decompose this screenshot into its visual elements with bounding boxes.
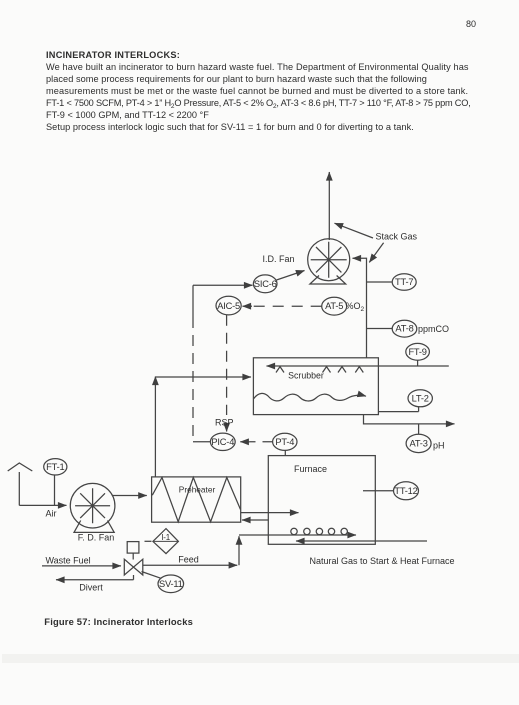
instrument AT-3 xyxy=(406,434,431,452)
wire feed horizontal xyxy=(143,564,237,566)
preheater coil zigzag xyxy=(152,478,240,522)
instrument AT-3 stem xyxy=(418,424,420,434)
svg-text:80: 80 xyxy=(466,19,476,29)
instrument AT-8 connector xyxy=(366,328,392,330)
instrument SV-11 bubble xyxy=(158,575,184,593)
svg-text:FT-9 < 1000 GPM, and TT-12 < 2: FT-9 < 1000 GPM, and TT-12 < 2200 °F xyxy=(46,110,209,120)
svg-text:AIC-5: AIC-5 xyxy=(217,301,240,311)
valve SV-11 body left xyxy=(124,559,133,575)
wire stack pipe xyxy=(328,172,330,240)
interlock connector dash xyxy=(145,540,152,542)
svg-text:We have built an incinerator t: We have built an incinerator to burn haz… xyxy=(46,62,469,72)
instrument SV-11 leader xyxy=(142,572,162,579)
svg-text:PIC-4: PIC-4 xyxy=(211,437,234,447)
valve SV-11 body right xyxy=(134,559,143,575)
instrument LT-2 xyxy=(408,390,432,407)
wire preheater to furnace xyxy=(241,512,299,514)
wire divert xyxy=(56,575,134,580)
burner 1 xyxy=(291,528,297,534)
instrument PIC-4 xyxy=(210,433,235,450)
fan FD base xyxy=(74,521,114,533)
LT-2 connector xyxy=(378,407,418,412)
wire waste fuel xyxy=(42,565,121,567)
signal AIC-5 to PIC-4 dashed xyxy=(226,315,228,415)
wire signal riser dashed xyxy=(192,285,194,317)
instrument SIC-6 xyxy=(253,275,277,293)
interlock chord xyxy=(153,540,179,542)
svg-text:TT-12: TT-12 xyxy=(394,486,417,496)
instrument PT-4 xyxy=(273,433,297,450)
wire preheater to scrubber riser xyxy=(154,377,156,478)
burner 5 xyxy=(341,528,347,534)
furnace vessel xyxy=(268,456,375,545)
nozzle 1 xyxy=(276,367,284,373)
svg-text:I-1: I-1 xyxy=(161,533,170,542)
instrument FT-9 stem xyxy=(417,360,419,366)
signal PT-4 to PIC-4 dashed xyxy=(250,441,273,443)
svg-text:Waste Fuel: Waste Fuel xyxy=(46,555,91,565)
svg-text:Figure 57: Incinerator Interlo: Figure 57: Incinerator Interlocks xyxy=(44,616,193,627)
wire gas inlet to scrubber xyxy=(267,365,449,367)
wire air down xyxy=(18,472,20,505)
wire furnace return to preheater xyxy=(242,519,268,521)
svg-text:measurements must be met or th: measurements must be met or the waste fu… xyxy=(46,86,468,96)
svg-text:Preheater: Preheater xyxy=(179,485,216,495)
wire SIC-6 to fan xyxy=(277,271,305,281)
valve stem xyxy=(132,553,134,559)
wire PIC-4 to corner xyxy=(193,441,211,443)
paragraph xyxy=(46,62,471,132)
fan ID spokes xyxy=(311,242,347,278)
air chevron inlet xyxy=(8,463,33,471)
instrument AT-5 xyxy=(322,297,347,315)
nozzle 4 xyxy=(355,367,363,373)
instrument FT-1 xyxy=(44,459,67,475)
wire air to FD fan xyxy=(19,504,66,506)
instrument TT-12 xyxy=(394,482,419,500)
svg-text:TT-7: TT-7 xyxy=(395,277,413,287)
svg-text:AT-5: AT-5 xyxy=(325,301,343,311)
TT-12 connector xyxy=(363,490,394,492)
wire riser to scrubber xyxy=(155,376,251,378)
fan ID: I.D. Fan circle xyxy=(308,239,350,281)
liquid wavy level xyxy=(253,393,366,401)
wire feed to burners xyxy=(239,534,356,536)
svg-text:Feed: Feed xyxy=(178,554,199,564)
instrument PT-4 stem xyxy=(284,450,286,455)
wire feed riser xyxy=(238,536,240,565)
nozzle 2 xyxy=(323,367,331,373)
svg-text:AT-3: AT-3 xyxy=(410,439,428,449)
svg-text:ppmCO: ppmCO xyxy=(418,324,449,334)
fan ID base xyxy=(310,276,346,285)
instrument TT-7 xyxy=(392,274,416,291)
burner 2 xyxy=(304,528,310,534)
wire FD fan to preheater xyxy=(113,495,147,497)
TT-7 connector xyxy=(366,281,392,283)
svg-text:Stack Gas: Stack Gas xyxy=(376,232,418,242)
svg-text:Furnace: Furnace xyxy=(294,464,327,474)
svg-text:Scrubber: Scrubber xyxy=(288,371,324,381)
svg-text:Air: Air xyxy=(46,509,57,519)
svg-text:PT-4: PT-4 xyxy=(275,437,294,447)
wire scrubber bottom outlet xyxy=(364,415,455,424)
interlock I-1 diamond xyxy=(153,529,179,554)
svg-text:LT-2: LT-2 xyxy=(412,393,429,403)
svg-text:FT-9: FT-9 xyxy=(408,347,426,357)
nozzle 3 xyxy=(338,367,346,373)
valve actuator xyxy=(127,542,139,554)
instrument AT-8 xyxy=(392,320,417,337)
scrubber vessel xyxy=(253,358,378,415)
instrument FT-9 xyxy=(406,343,430,360)
svg-text:Natural Gas to Start & Heat Fu: Natural Gas to Start & Heat Furnace xyxy=(310,556,455,566)
instrument FT-1 stem xyxy=(54,475,56,505)
leader arrow to duct corner xyxy=(369,243,383,263)
signal arrow into AIC-5 xyxy=(243,305,253,307)
signal AT-5 to AIC-5 dashed xyxy=(252,305,322,307)
svg-text:SIC-6: SIC-6 xyxy=(254,279,277,289)
svg-text:INCINERATOR INTERLOCKS:: INCINERATOR INTERLOCKS: xyxy=(46,50,180,60)
leader arrow to stack xyxy=(335,223,374,238)
svg-text:Setup process interlock logic: Setup process interlock logic such that … xyxy=(46,122,414,132)
preheater vessel xyxy=(152,477,241,522)
wire to SIC-6 xyxy=(193,284,253,286)
svg-text:pH: pH xyxy=(433,440,445,450)
svg-text:I.D. Fan: I.D. Fan xyxy=(263,254,295,264)
instrument AIC-5 xyxy=(216,296,241,315)
svg-text:placed some process requiremen: placed some process requirements for our… xyxy=(46,74,427,84)
fan FD spokes xyxy=(75,488,110,523)
burner 3 xyxy=(316,528,322,534)
svg-text:AT-8: AT-8 xyxy=(395,324,413,334)
signal arrow into PIC-4 xyxy=(240,441,250,443)
svg-text:RSP: RSP xyxy=(215,418,234,428)
svg-text:Divert: Divert xyxy=(79,582,103,592)
fan FD circle xyxy=(70,483,115,528)
burner 4 xyxy=(328,528,334,534)
wire duct scrubber to fan inlet xyxy=(353,258,367,358)
signal arrow RSP into PIC-4 xyxy=(226,424,228,432)
svg-text:SV-11: SV-11 xyxy=(159,579,183,589)
svg-text:FT-1: FT-1 xyxy=(46,462,64,472)
wire natural gas xyxy=(296,540,427,542)
svg-text:F. D. Fan: F. D. Fan xyxy=(78,533,115,543)
